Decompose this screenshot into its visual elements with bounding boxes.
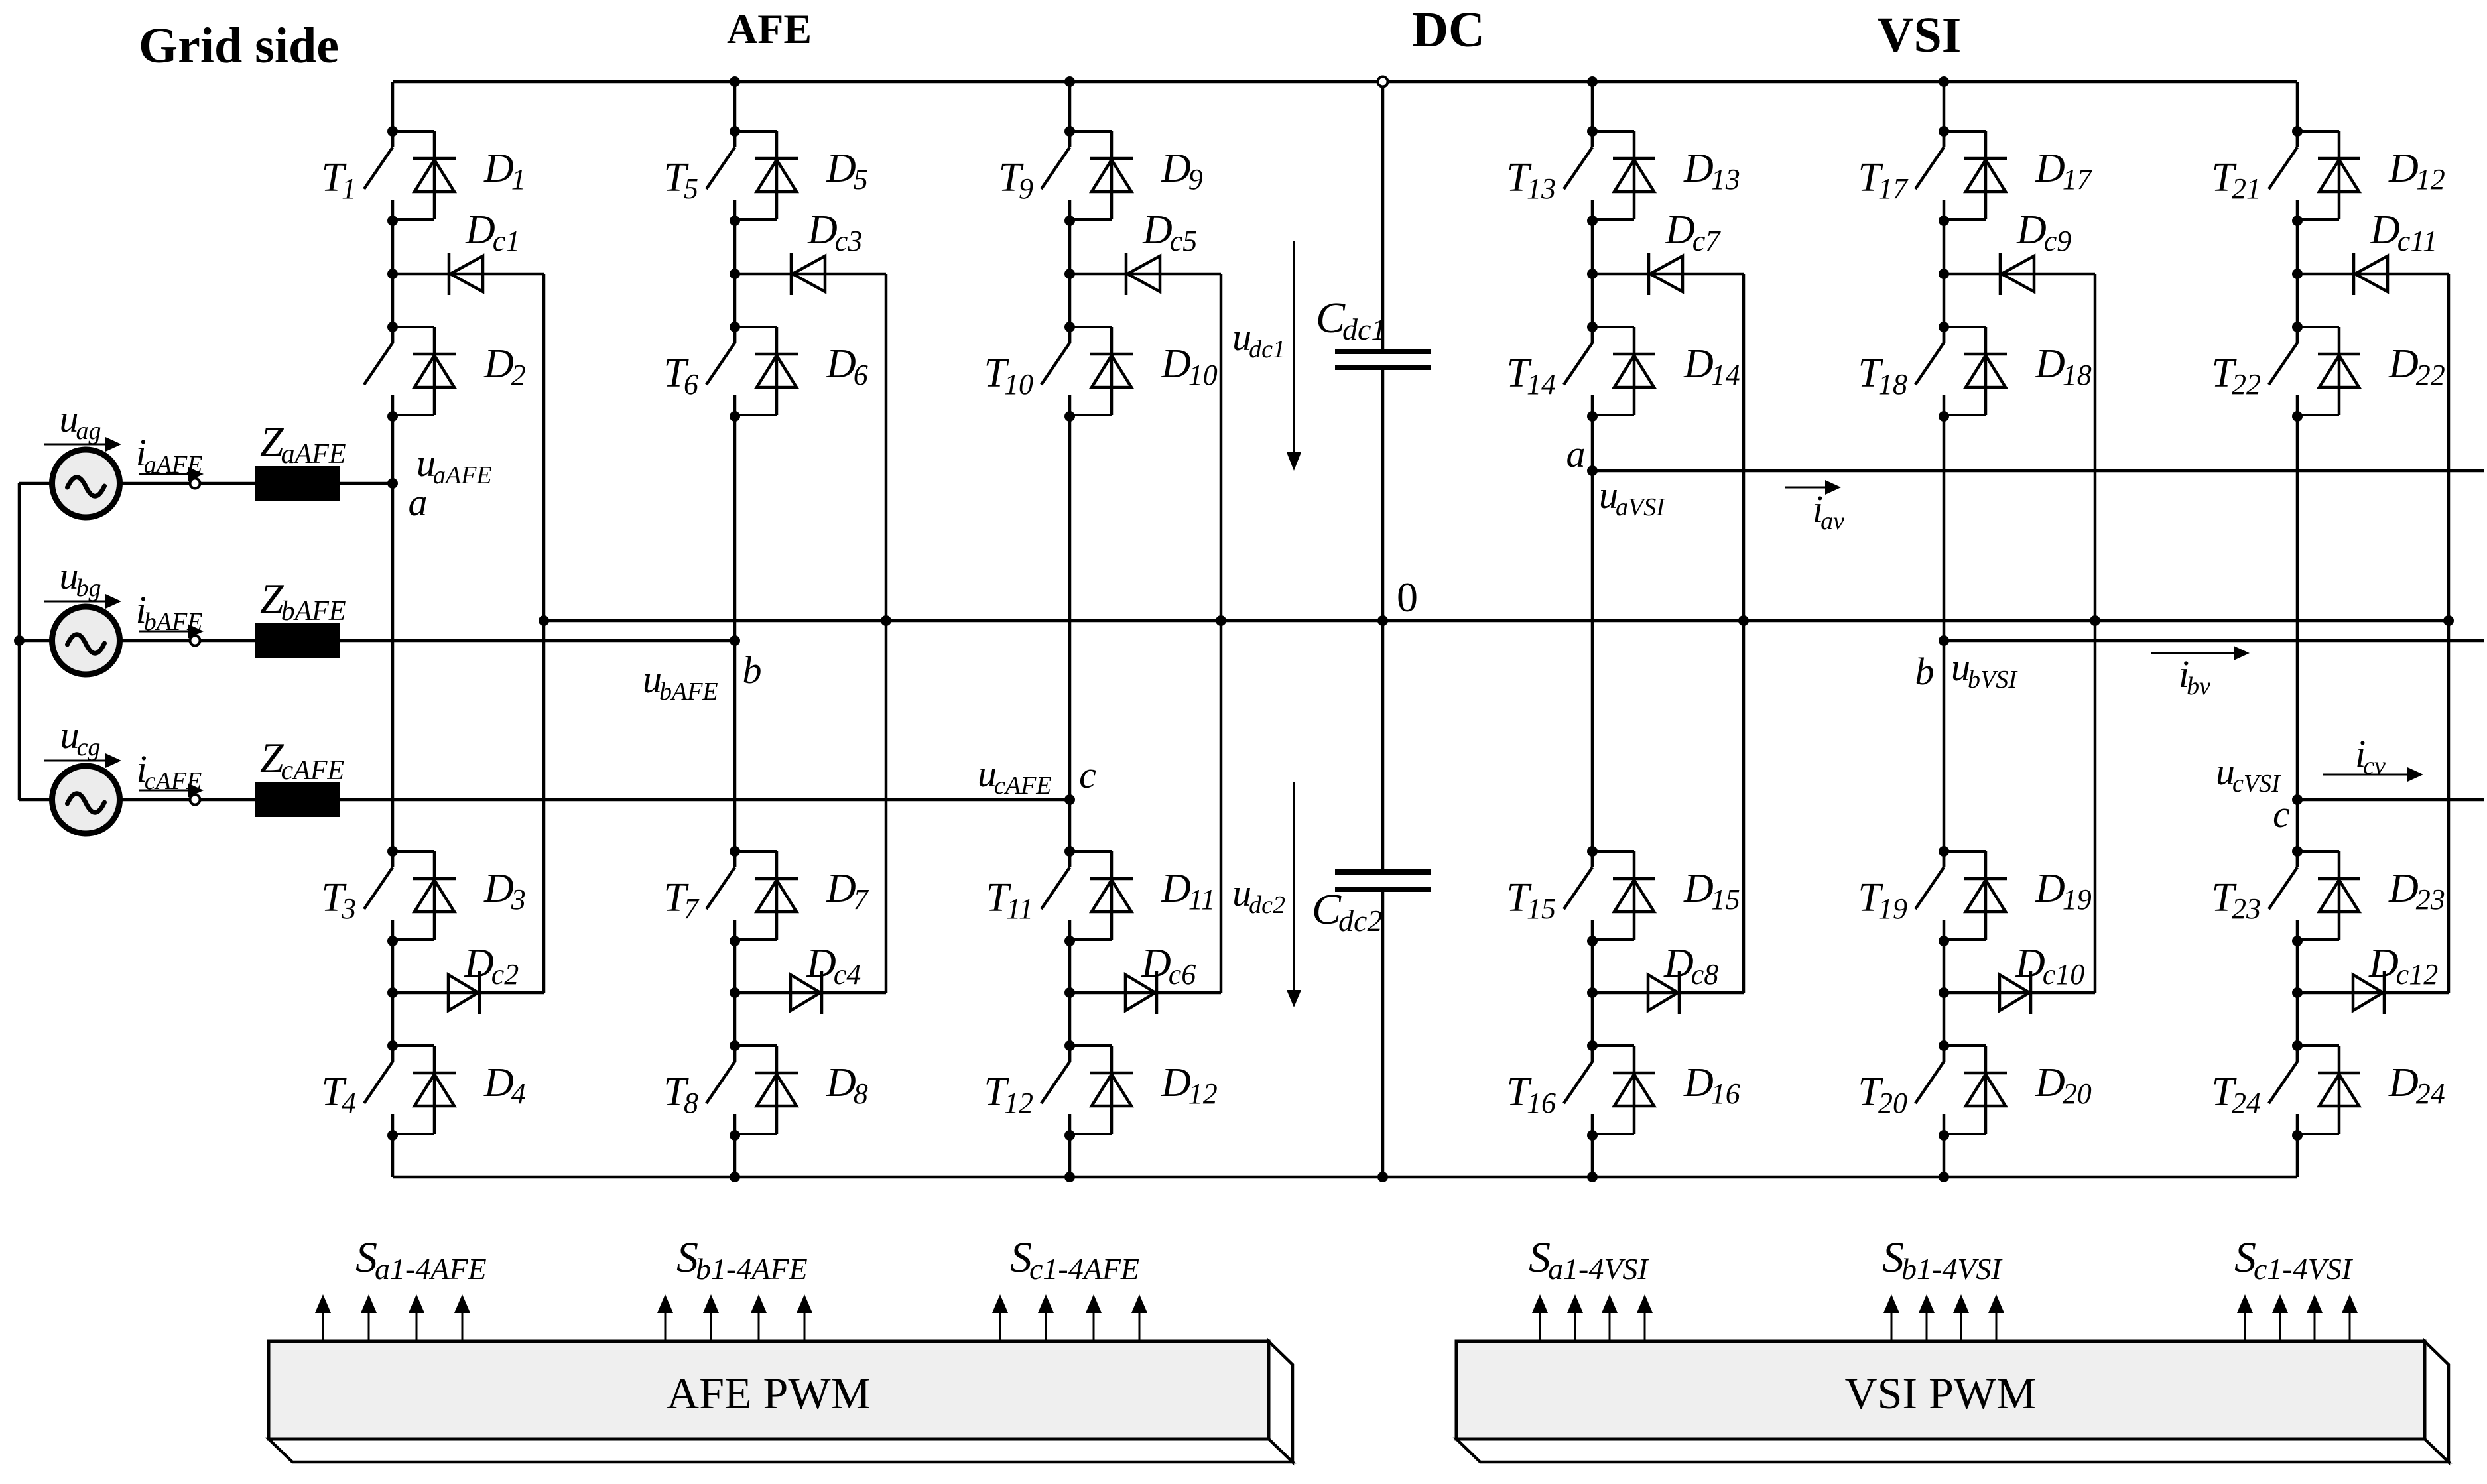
wire: leg 6 vertical segment (cell4 to bottom rail): [2296, 1135, 2299, 1177]
svg-text:VSI: VSI: [1878, 7, 1962, 63]
clamp diode Dc7: [1649, 253, 1683, 295]
transistor T14: [1564, 322, 1598, 422]
transistor T13: [1564, 126, 1598, 226]
wire: DC link vertical (top rail to Cdc1): [1381, 82, 1385, 351]
voltage arrow u_cg: [44, 760, 106, 762]
gate signal arrows Sa1-4AFE: [315, 1294, 331, 1341]
junction: bottom rail / leg 2: [730, 1172, 740, 1182]
transistor T12: [1041, 1040, 1075, 1141]
svg-text:c: c: [2273, 792, 2290, 835]
svg-text:AFE: AFE: [727, 5, 812, 52]
wire: leg 5 vertical segment (cell1 to cell2): [1943, 221, 1946, 343]
wire: top clamp connection leg 6: [2297, 273, 2449, 276]
voltage source u_cg: [52, 766, 120, 834]
junction: bottom rail / leg 4: [1587, 1172, 1598, 1182]
transistor T19: [1915, 846, 1949, 946]
current arrow i_cAFE: [139, 790, 188, 792]
wire: grid phase b line: [19, 639, 735, 643]
diode D15: [1592, 851, 1655, 940]
wire: bottom clamp connection leg 4: [1592, 991, 1744, 995]
transistor T22: [2269, 322, 2303, 422]
voltage source u_ag: [52, 450, 120, 517]
capacitor Cdc1: [1335, 349, 1431, 354]
diode D11: [1070, 851, 1133, 940]
clamp diode Dc8: [1648, 971, 1679, 1014]
diode D2: [393, 327, 456, 415]
junction: top rail / leg 5: [1939, 76, 1949, 87]
wire: leg 6 vertical segment (cell3 to cell4): [2296, 941, 2299, 1062]
wire: top clamp connection leg 5: [1944, 273, 2095, 276]
diode D18: [1944, 327, 2007, 415]
wire: leg 2 vertical segment (cell2 to cell3, phase node): [733, 416, 737, 867]
junction: top rail / leg 4: [1587, 76, 1598, 87]
wire: clamp bus vertical of leg 3: [1220, 274, 1223, 993]
transistor T9: [1041, 126, 1075, 226]
wire: leg 1 vertical segment (cell2 to cell3, phase node): [391, 416, 395, 867]
wire: leg 1 vertical segment (top rail to T cell): [391, 82, 395, 147]
svg-text:0: 0: [1397, 574, 1418, 621]
wire: leg 4 vertical segment (top rail to T cell): [1591, 82, 1594, 147]
clamp diode Dc9: [2000, 253, 2034, 295]
capacitor Cdc2: [1335, 869, 1431, 875]
wire: top clamp connection leg 4: [1592, 273, 1744, 276]
transistor T5: [706, 126, 740, 226]
gate signal arrows Sb1-4AFE: [657, 1294, 673, 1341]
terminal node on phase b: [190, 636, 200, 646]
wire: leg 2 vertical segment (top rail to T cell): [733, 82, 737, 147]
junction: neutral rail / clamp bus 3: [1216, 615, 1226, 626]
diode D8: [735, 1046, 798, 1134]
voltage source u_bg: [52, 607, 120, 674]
wire: clamp bus vertical of leg 5: [2094, 274, 2097, 993]
wire: leg 1 vertical segment (cell3 to cell4): [391, 941, 395, 1062]
wire: bottom clamp connection leg 3: [1070, 991, 1221, 995]
clamp diode Dc6: [1125, 971, 1157, 1014]
transistor T3: [364, 846, 398, 946]
wire: leg 4 vertical segment (cell1 to cell2): [1591, 221, 1594, 343]
diode D6: [735, 327, 798, 415]
svg-text:b: b: [743, 649, 762, 692]
gate signal arrows Sc1-4AFE: [992, 1294, 1008, 1341]
diode D12: [1070, 1046, 1133, 1134]
wire: top clamp connection leg 1: [393, 273, 544, 276]
current arrow i_aAFE: [139, 473, 188, 475]
transistor T16: [1564, 1040, 1598, 1141]
transistor (unlabelled, leg 1 position 2): [364, 322, 398, 422]
gate signal arrows Sb1-4VSI: [1883, 1294, 1899, 1341]
wire: bottom DC- rail: [393, 1176, 2297, 1179]
node 0 : junction DC link / neutral rail: [1377, 615, 1388, 626]
junction: DC link / top rail (open circle): [1378, 77, 1388, 87]
wire: VSI output phase b: [1944, 639, 2484, 643]
transistor T23: [2269, 846, 2303, 946]
wire: DC link vertical (Cdc1 to Cdc2 through node 0): [1381, 367, 1385, 872]
wire: leg 4 vertical segment (cell4 to bottom rail): [1591, 1135, 1594, 1177]
svg-text:c: c: [1079, 753, 1096, 796]
junction: neutral rail / clamp bus 2: [881, 615, 891, 626]
wire: leg 5 vertical segment (cell2 to cell3, phase node): [1943, 416, 1946, 867]
node a (VSI): [1587, 465, 1598, 476]
wire: top DC+ rail: [393, 80, 2297, 84]
transistor T1: [364, 126, 398, 226]
diode D22: [2297, 327, 2360, 415]
voltage arrow u_dc1: [1293, 241, 1295, 452]
wire: leg 4 vertical segment (cell3 to cell4): [1591, 941, 1594, 1062]
svg-text:DC: DC: [1412, 2, 1485, 58]
svg-text:a: a: [1566, 432, 1586, 475]
diode D23: [2297, 851, 2360, 940]
gate signal arrows Sc1-4VSI: [2237, 1294, 2253, 1341]
diode D12: [2297, 131, 2360, 219]
wire: clamp bus vertical of leg 4: [1742, 274, 1746, 993]
impedance Z_cAFE: [255, 782, 340, 817]
diode D4: [393, 1046, 456, 1134]
wire: grid-side common bus (left): [18, 483, 21, 800]
wire: leg 3 vertical segment (cell2 to cell3, phase node): [1068, 416, 1072, 867]
transistor T18: [1915, 322, 1949, 422]
impedance Z_bAFE: [255, 623, 340, 658]
transistor T8: [706, 1040, 740, 1141]
diode D7: [735, 851, 798, 940]
wire: leg 6 vertical segment (cell2 to cell3, phase node): [2296, 416, 2299, 867]
current arrow i_av: [1785, 487, 1825, 489]
wire: clamp bus vertical of leg 6: [2447, 274, 2451, 993]
transistor T17: [1915, 126, 1949, 226]
node b (AFE): [730, 635, 740, 646]
junction: neutral rail / clamp bus 6: [2443, 615, 2454, 626]
wire: bottom clamp connection leg 5: [1944, 991, 2095, 995]
wire: top clamp connection leg 2: [735, 273, 886, 276]
clamp diode Dc3: [791, 253, 825, 295]
wire: leg 2 vertical segment (cell3 to cell4): [733, 941, 737, 1062]
wire: grid phase c line: [19, 798, 1070, 802]
terminal node on phase c: [190, 795, 200, 805]
wire: clamp bus vertical of leg 2: [885, 274, 888, 993]
gate signal arrows Sa1-4VSI: [1532, 1294, 1548, 1341]
wire: leg 3 vertical segment (cell1 to cell2): [1068, 221, 1072, 343]
diode D20: [1944, 1046, 2007, 1134]
clamp diode Dc5: [1126, 253, 1160, 295]
impedance Z_aAFE: [255, 466, 340, 501]
junction: bottom rail / leg 3: [1064, 1172, 1075, 1182]
transistor T11: [1041, 846, 1075, 946]
junction: left bus / phase b: [14, 635, 25, 646]
wire: leg 6 vertical segment (top rail to T cell): [2296, 82, 2299, 147]
diode D14: [1592, 327, 1655, 415]
wire: leg 2 vertical segment (cell4 to bottom rail): [733, 1135, 737, 1177]
svg-text:a: a: [409, 481, 428, 524]
svg-text:Grid side: Grid side: [139, 18, 339, 74]
wire: leg 1 vertical segment (cell4 to bottom rail): [391, 1135, 395, 1177]
clamp diode Dc4: [791, 971, 822, 1014]
wire: leg 4 vertical segment (cell2 to cell3, phase node): [1591, 416, 1594, 867]
node b (VSI): [1939, 635, 1949, 646]
transistor T6: [706, 322, 740, 422]
wire: leg 3 vertical segment (cell3 to cell4): [1068, 941, 1072, 1062]
diode D3: [393, 851, 456, 940]
wire: grid phase a line: [19, 482, 393, 485]
current arrow i_bv: [2151, 652, 2234, 654]
clamp diode Dc2: [448, 971, 479, 1014]
diode D1: [393, 131, 456, 219]
voltage arrow u_dc2: [1293, 782, 1295, 990]
node c (AFE): [1064, 794, 1075, 805]
wire: leg 5 vertical segment (cell3 to cell4): [1943, 941, 1946, 1062]
wire: leg 3 vertical segment (cell4 to bottom rail): [1068, 1135, 1072, 1177]
node a (AFE): [387, 478, 398, 489]
wire: VSI output phase c: [2297, 798, 2484, 802]
wire: leg 2 vertical segment (cell1 to cell2): [733, 221, 737, 343]
wire: neutral (0) rail: [544, 619, 2449, 623]
junction: top rail / leg 2: [730, 76, 740, 87]
wire: leg 5 vertical segment (top rail to T cell): [1943, 82, 1946, 147]
wire: bottom clamp connection leg 2: [735, 991, 886, 995]
block: VSI PWM: [1456, 1439, 2449, 1462]
block: AFE PWM: [269, 1439, 1293, 1462]
voltage arrow u_ag: [44, 444, 106, 446]
transistor T20: [1915, 1040, 1949, 1141]
clamp diode Dc10: [2000, 971, 2031, 1014]
wire: leg 6 vertical segment (cell1 to cell2): [2296, 221, 2299, 343]
diode D5: [735, 131, 798, 219]
diode D13: [1592, 131, 1655, 219]
wire: leg 1 vertical segment (cell1 to cell2): [391, 221, 395, 343]
junction: neutral rail / clamp bus 5: [2090, 615, 2100, 626]
transistor T24: [2269, 1040, 2303, 1141]
junction: neutral rail / clamp bus 1: [539, 615, 549, 626]
terminal node on phase a: [190, 479, 200, 489]
junction: DC link / bottom rail: [1377, 1172, 1388, 1182]
transistor T21: [2269, 126, 2303, 226]
wire: leg 3 vertical segment (top rail to T cell): [1068, 82, 1072, 147]
diode D19: [1944, 851, 2007, 940]
diode D9: [1070, 131, 1133, 219]
diode D24: [2297, 1046, 2360, 1134]
clamp diode Dc12: [2353, 971, 2384, 1014]
wire: clamp bus vertical of leg 1: [542, 274, 546, 993]
wire: VSI output phase a: [1592, 469, 2484, 473]
current arrow i_bAFE: [139, 631, 188, 633]
diode D16: [1592, 1046, 1655, 1134]
wire: top clamp connection leg 3: [1070, 273, 1221, 276]
transistor T10: [1041, 322, 1075, 422]
svg-text:b: b: [1915, 650, 1935, 693]
diode D17: [1944, 131, 2007, 219]
wire: bottom clamp connection leg 6: [2297, 991, 2449, 995]
junction: bottom rail / leg 5: [1939, 1172, 1949, 1182]
wire: leg 5 vertical segment (cell4 to bottom rail): [1943, 1135, 1946, 1177]
transistor T7: [706, 846, 740, 946]
clamp diode Dc11: [2354, 253, 2388, 295]
junction: top rail / leg 3: [1064, 76, 1075, 87]
node c (VSI): [2292, 794, 2303, 805]
transistor T15: [1564, 846, 1598, 946]
junction: neutral rail / clamp bus 4: [1738, 615, 1749, 626]
transistor T4: [364, 1040, 398, 1141]
wire: bottom clamp connection leg 1: [393, 991, 544, 995]
wire: DC link vertical (Cdc2 to bottom rail): [1381, 889, 1385, 1177]
clamp diode Dc1: [449, 253, 483, 295]
diode D10: [1070, 327, 1133, 415]
current arrow i_cv: [2323, 774, 2407, 776]
svg-text:VSI PWM: VSI PWM: [1844, 1368, 2036, 1418]
voltage arrow u_bg: [44, 601, 106, 603]
svg-text:AFE PWM: AFE PWM: [667, 1368, 871, 1418]
